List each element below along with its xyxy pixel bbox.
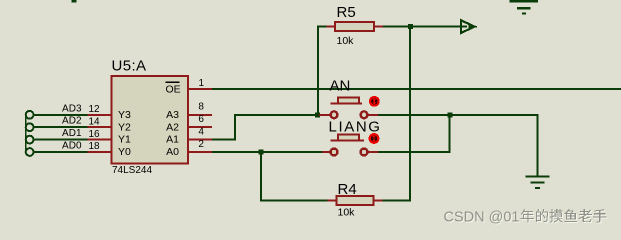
pin 4 stub (A1) (188, 139, 212, 141)
svg-text:A3: A3 (166, 109, 179, 121)
pin 18 stub (Y0) (88, 151, 112, 153)
wire AD3 (34, 114, 88, 116)
pin 1 stub (OE) (188, 88, 212, 90)
svg-text:2: 2 (198, 139, 204, 150)
button LIANG actuator marker (369, 133, 380, 144)
terminal bus vertical (25, 115, 27, 152)
svg-text:AD1: AD1 (62, 128, 82, 139)
junction AN left (315, 112, 320, 117)
resistor R5 (327, 22, 384, 31)
svg-text:CSDN @01: CSDN @01 (444, 209, 520, 225)
resistor R4 (328, 196, 383, 205)
wire: R4 row left (261, 200, 328, 202)
wire AD0 (34, 151, 88, 153)
chip U5:A body (112, 76, 189, 164)
svg-text:Y0: Y0 (118, 146, 131, 158)
button AN (319, 97, 378, 118)
svg-text:4: 4 (198, 126, 204, 137)
ground (top-right, partially cut off) (510, 0, 539, 15)
wire: OE pin1 net, horizontal to right edge (212, 88, 621, 90)
pin 12 stub (Y3) (88, 114, 112, 116)
svg-text:AD2: AD2 (62, 116, 82, 127)
pin 2 stub (A0) (188, 151, 212, 153)
wire: vertical to middle ground (537, 114, 539, 176)
wire: pin4 (A1) to AN row (212, 139, 236, 141)
svg-text:10k: 10k (337, 35, 355, 47)
button LIANG (322, 135, 378, 156)
svg-text:74LS244: 74LS244 (112, 165, 152, 176)
pin 6 stub (A2) (188, 126, 212, 128)
output arrow (buffer symbol, top right) (461, 20, 477, 33)
svg-text:12: 12 (89, 104, 101, 115)
terminal AD1 (26, 136, 34, 144)
pin 16 stub (Y1) (88, 139, 112, 141)
svg-text:R4: R4 (338, 181, 357, 198)
wire: AN row to ground corner (453, 114, 538, 116)
svg-text:6: 6 (198, 114, 204, 125)
wire: vertical down to R4 row (260, 152, 262, 202)
svg-text:R5: R5 (337, 4, 356, 21)
wire AD1 (34, 139, 88, 141)
pin 8 stub (A3) (188, 114, 212, 116)
svg-text:16: 16 (89, 129, 101, 140)
wire AD2 (34, 126, 88, 128)
wire: pin2 (A0) to LIANG row (212, 151, 322, 153)
junction AN right (448, 112, 453, 117)
svg-text:Y1: Y1 (118, 134, 131, 146)
svg-text:AD0: AD0 (62, 141, 82, 152)
svg-text:Y3: Y3 (118, 109, 131, 121)
terminal AD3 (26, 111, 34, 119)
wire: vertical from R5 right junction down to R4 row (409, 26, 411, 202)
ground (top-left, mostly cut off) (72, 0, 77, 3)
wire: LIANG right up to AN row (378, 151, 450, 153)
svg-text:A2: A2 (166, 121, 179, 133)
svg-text:18: 18 (89, 141, 101, 152)
svg-text:10k: 10k (338, 207, 356, 219)
svg-text:AN: AN (330, 78, 351, 95)
svg-text:1: 1 (199, 78, 205, 89)
svg-text:8: 8 (198, 102, 204, 113)
svg-text:A1: A1 (166, 134, 179, 146)
wire: R5 left segment (318, 26, 327, 28)
wire: vertical from R5 left down to AN row (317, 26, 319, 116)
junction LIANG/R4 (259, 150, 264, 155)
svg-text:14: 14 (89, 116, 101, 127)
wire: AN right to junction (378, 114, 452, 116)
svg-text:Y2: Y2 (118, 121, 131, 133)
svg-text:LIANG: LIANG (329, 119, 382, 136)
wire: R5 right segment to arrow (383, 26, 467, 28)
terminal AD2 (26, 123, 34, 131)
wire: R4 row right (383, 200, 412, 202)
svg-text:AD3: AD3 (62, 103, 82, 114)
ground (middle right) (526, 175, 550, 189)
svg-text:A0: A0 (166, 146, 179, 158)
button AN actuator marker (369, 96, 380, 107)
junction at R5 right / vertical (408, 24, 413, 29)
pin 14 stub (Y2) (88, 126, 112, 128)
terminal AD0 (26, 148, 34, 156)
svg-text:U5:A: U5:A (112, 58, 147, 75)
svg-text:OE: OE (166, 84, 181, 96)
